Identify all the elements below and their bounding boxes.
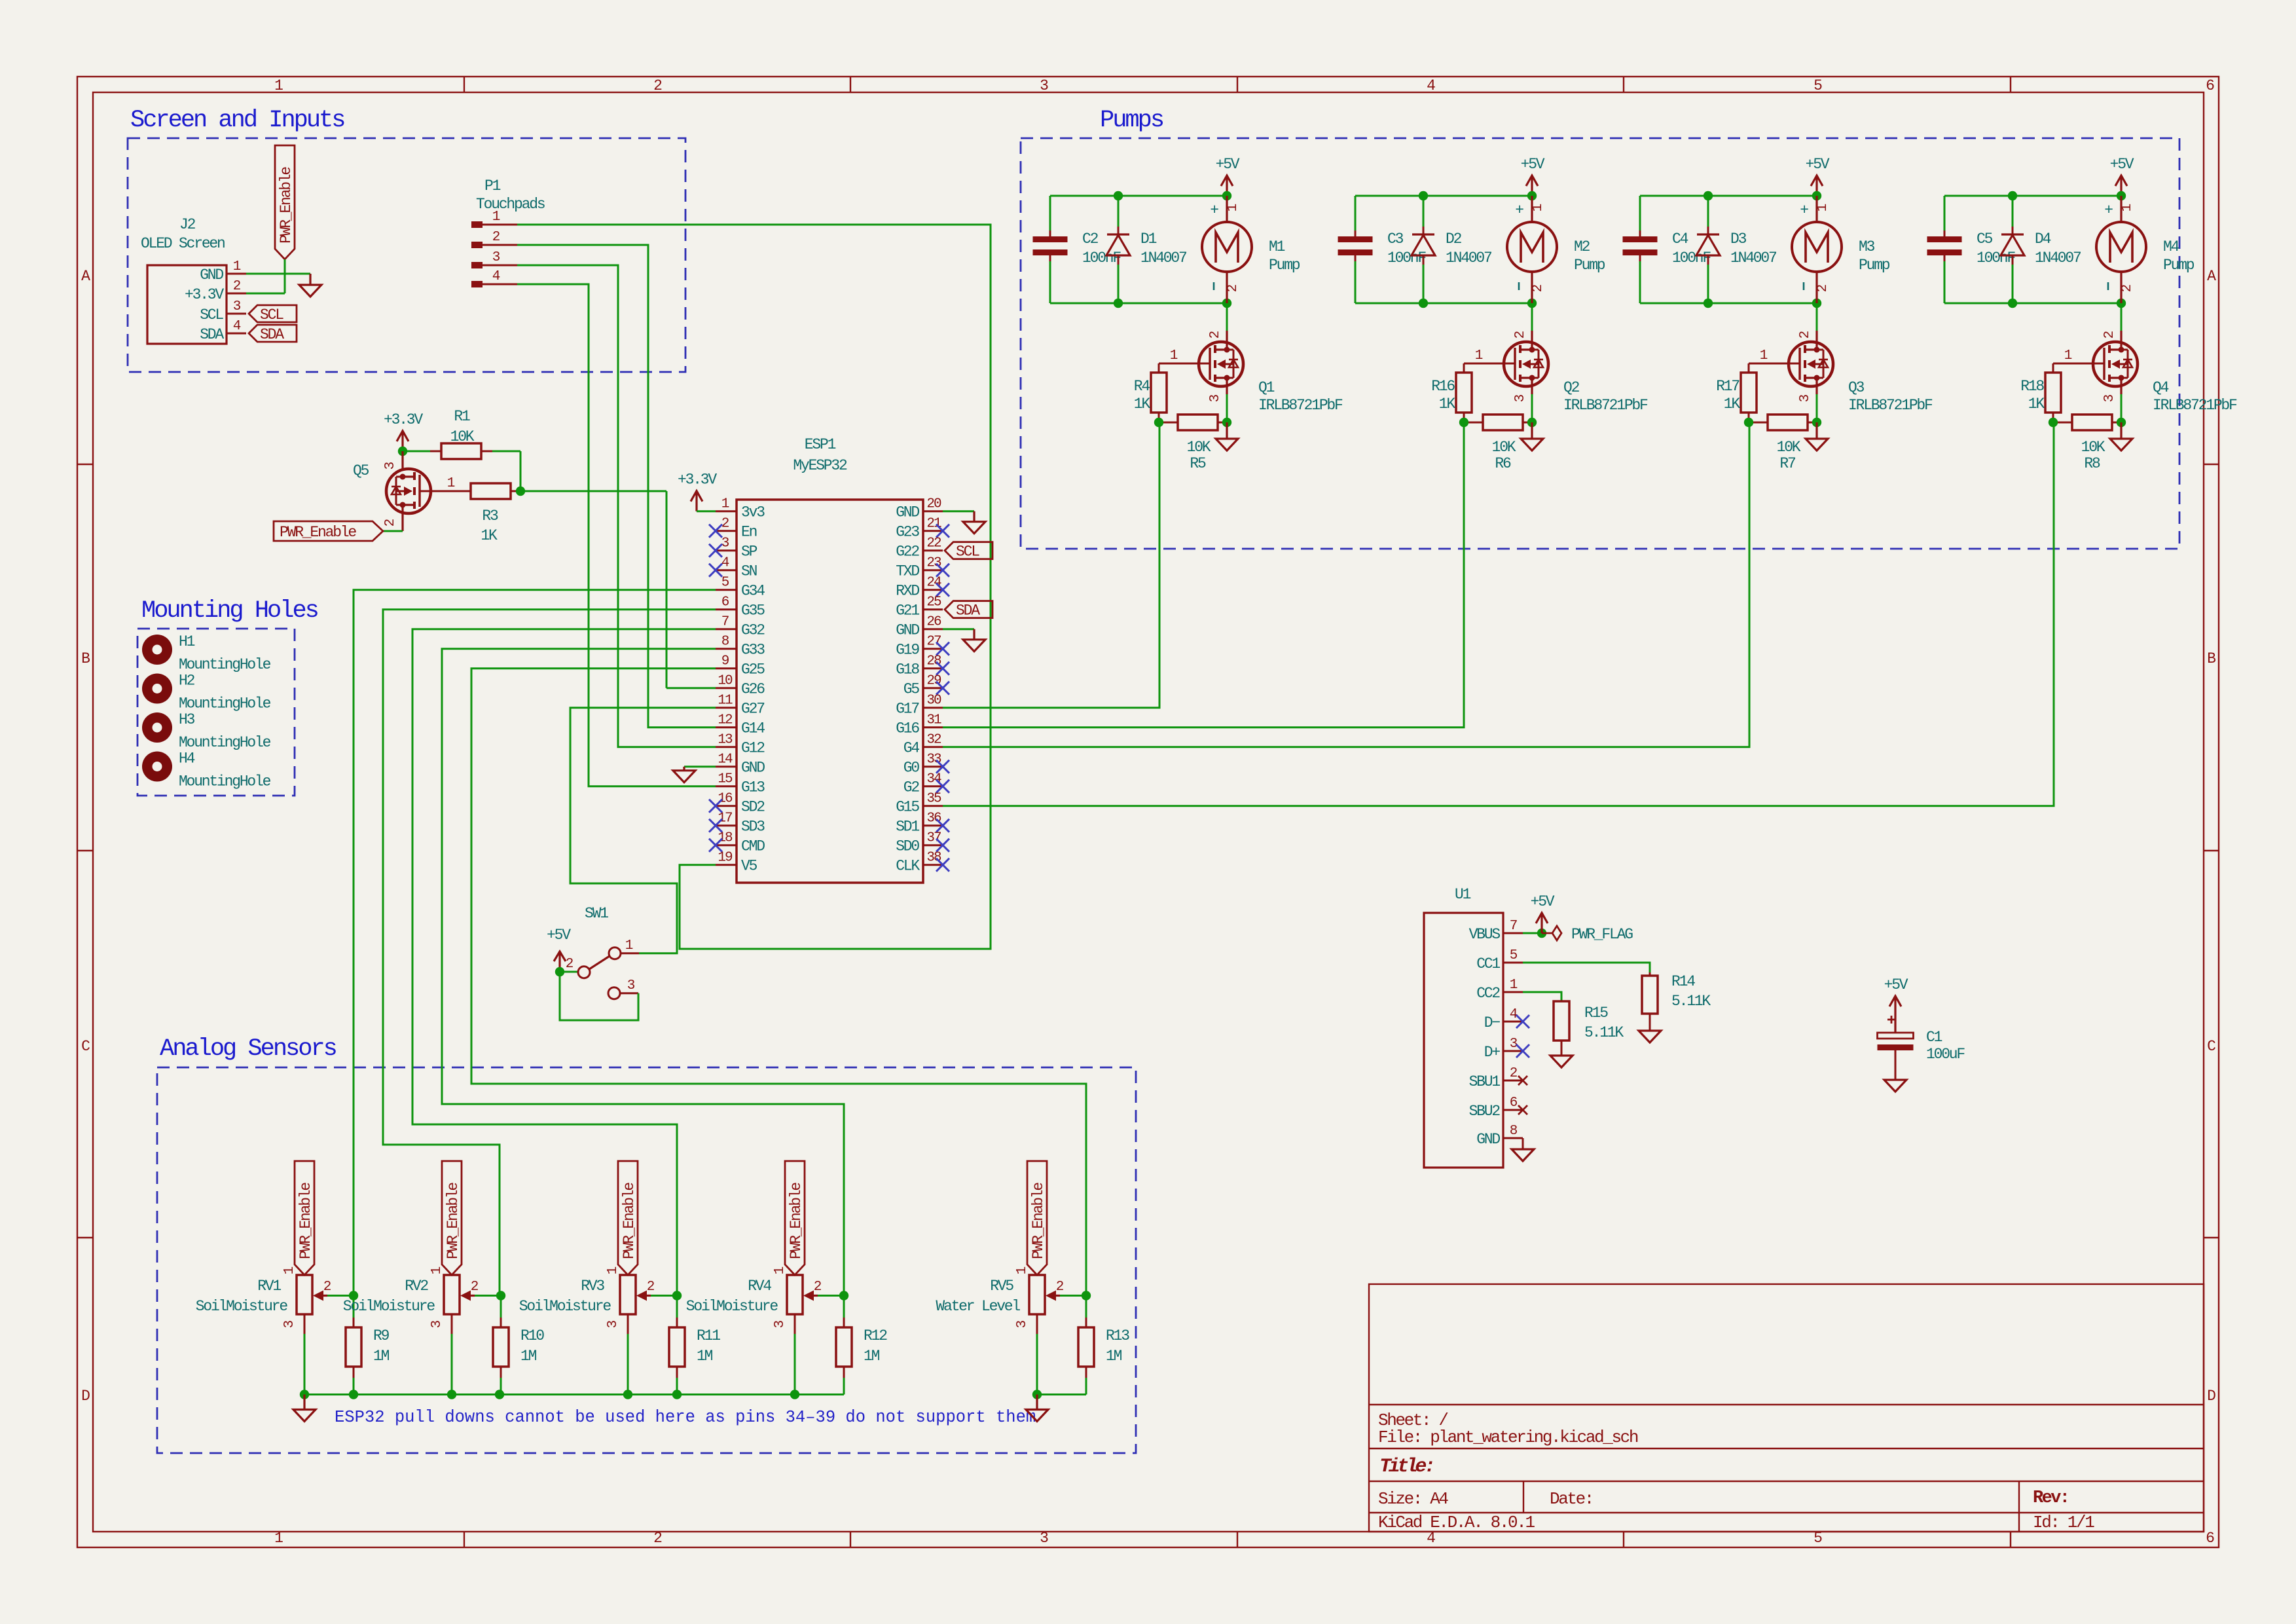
- svg-text:1: 1: [2120, 204, 2135, 212]
- svg-text:SD1: SD1: [896, 819, 919, 836]
- svg-text:2: 2: [1510, 1066, 1518, 1081]
- svg-text:9: 9: [721, 654, 729, 669]
- svg-text:G22: G22: [896, 544, 919, 561]
- svg-text:B: B: [81, 650, 90, 667]
- svg-text:C5: C5: [1977, 231, 1993, 248]
- svg-text:29: 29: [926, 674, 941, 689]
- svg-text:SoilMoisture: SoilMoisture: [196, 1298, 288, 1315]
- svg-text:2: 2: [1056, 1280, 1064, 1295]
- svg-text:21: 21: [926, 517, 941, 532]
- svg-text:SDA: SDA: [260, 326, 284, 343]
- svg-text:MountingHole: MountingHole: [179, 656, 271, 673]
- svg-text:SW1: SW1: [585, 905, 608, 922]
- svg-text:4: 4: [1427, 77, 1435, 94]
- svg-text:R5: R5: [1190, 455, 1206, 472]
- svg-text:2: 2: [1798, 331, 1813, 339]
- svg-text:D−: D−: [1484, 1014, 1501, 1031]
- svg-text:Pump: Pump: [1269, 257, 1300, 274]
- svg-text:Mounting Holes: Mounting Holes: [141, 597, 318, 625]
- svg-text:G15: G15: [896, 799, 919, 816]
- svg-text:1: 1: [1170, 348, 1178, 363]
- svg-text:11: 11: [718, 693, 733, 709]
- svg-text:1N4007: 1N4007: [1730, 249, 1776, 267]
- svg-text:15: 15: [718, 772, 733, 787]
- svg-text:10K: 10K: [1777, 439, 1801, 456]
- svg-text:+5V: +5V: [547, 927, 571, 944]
- svg-text:Analog Sensors: Analog Sensors: [160, 1035, 337, 1063]
- svg-text:6: 6: [2206, 77, 2214, 94]
- svg-text:1N4007: 1N4007: [2035, 249, 2081, 267]
- svg-text:SCL: SCL: [200, 306, 223, 323]
- svg-text:1: 1: [274, 1530, 283, 1547]
- svg-text:H3: H3: [179, 711, 195, 728]
- svg-text:SN: SN: [741, 563, 757, 580]
- svg-text:GND: GND: [896, 622, 919, 639]
- svg-text:+5V: +5V: [1521, 156, 1545, 173]
- svg-text:G2: G2: [903, 779, 920, 796]
- svg-text:23: 23: [926, 556, 941, 571]
- svg-text:+: +: [2104, 202, 2113, 219]
- svg-text:2: 2: [653, 77, 662, 94]
- svg-text:CC1: CC1: [1476, 955, 1500, 972]
- svg-text:SBU2: SBU2: [1469, 1103, 1501, 1120]
- svg-text:1: 1: [1015, 1266, 1030, 1274]
- svg-text:C3: C3: [1387, 231, 1404, 248]
- svg-text:19: 19: [718, 851, 733, 866]
- svg-text:6: 6: [721, 595, 729, 610]
- svg-text:5.11K: 5.11K: [1671, 993, 1711, 1010]
- svg-text:G18: G18: [896, 661, 919, 678]
- svg-text:SD3: SD3: [741, 819, 765, 836]
- svg-text:B: B: [2207, 650, 2215, 667]
- svg-text:7: 7: [721, 615, 729, 630]
- svg-text:GND: GND: [1476, 1131, 1500, 1148]
- svg-text:1K: 1K: [1134, 396, 1151, 413]
- svg-text:+: +: [1800, 202, 1808, 219]
- svg-text:+5V: +5V: [1806, 156, 1830, 173]
- svg-text:MyESP32: MyESP32: [793, 457, 847, 474]
- svg-text:2: 2: [653, 1530, 662, 1547]
- svg-text:1M: 1M: [697, 1348, 713, 1365]
- svg-text:G21: G21: [896, 602, 919, 619]
- svg-text:SoilMoisture: SoilMoisture: [686, 1298, 778, 1315]
- svg-text:R9: R9: [373, 1327, 390, 1344]
- svg-text:SD0: SD0: [896, 838, 919, 855]
- svg-text:1: 1: [429, 1266, 445, 1274]
- svg-text:G4: G4: [903, 740, 920, 757]
- svg-text:GND: GND: [896, 504, 919, 521]
- svg-text:MountingHole: MountingHole: [179, 695, 271, 712]
- svg-text:G0: G0: [903, 760, 920, 777]
- svg-text:35: 35: [926, 792, 941, 807]
- svg-text:GND: GND: [200, 267, 223, 284]
- svg-text:2: 2: [1815, 284, 1831, 292]
- svg-text:38: 38: [926, 851, 941, 866]
- svg-text:Q1: Q1: [1258, 379, 1275, 396]
- svg-text:2: 2: [566, 957, 574, 972]
- svg-text:100nF: 100nF: [1082, 249, 1121, 267]
- svg-text:D3: D3: [1730, 231, 1747, 248]
- svg-text:1: 1: [1226, 204, 1241, 212]
- svg-text:Q5: Q5: [353, 462, 369, 479]
- svg-text:C: C: [2207, 1038, 2215, 1055]
- svg-text:4: 4: [1510, 1007, 1518, 1022]
- svg-text:Water Level: Water Level: [936, 1298, 1020, 1315]
- svg-text:R1: R1: [454, 408, 470, 425]
- svg-text:28: 28: [926, 654, 941, 669]
- svg-text:1: 1: [1510, 978, 1518, 993]
- svg-text:2: 2: [471, 1280, 479, 1295]
- svg-text:3: 3: [627, 978, 635, 993]
- svg-text:SoilMoisture: SoilMoisture: [343, 1298, 435, 1315]
- svg-text:12: 12: [718, 713, 733, 728]
- svg-text:Q2: Q2: [1563, 379, 1580, 396]
- svg-text:SP: SP: [741, 544, 757, 561]
- svg-text:3: 3: [233, 299, 241, 314]
- svg-text:IRLB8721PbF: IRLB8721PbF: [2153, 397, 2237, 414]
- svg-text:R8: R8: [2084, 455, 2100, 472]
- svg-text:1: 1: [1531, 204, 1546, 212]
- svg-text:1: 1: [1475, 348, 1483, 363]
- svg-text:Size: A4: Size: A4: [1378, 1489, 1448, 1509]
- svg-text:G35: G35: [741, 602, 765, 619]
- svg-text:SDA: SDA: [956, 602, 980, 619]
- svg-text:6: 6: [1510, 1096, 1518, 1111]
- svg-text:G17: G17: [896, 701, 919, 718]
- svg-text:16: 16: [718, 792, 733, 807]
- svg-text:2: 2: [2120, 284, 2135, 292]
- svg-text:14: 14: [718, 752, 733, 767]
- svg-text:17: 17: [718, 811, 732, 826]
- svg-text:R12: R12: [864, 1327, 887, 1344]
- svg-text:D: D: [2207, 1388, 2215, 1405]
- svg-text:+3.3V: +3.3V: [185, 286, 224, 303]
- svg-text:Title:: Title:: [1379, 1456, 1433, 1478]
- svg-text:D: D: [81, 1388, 90, 1405]
- svg-text:2: 2: [1226, 284, 1241, 292]
- svg-text:+5V: +5V: [2110, 156, 2134, 173]
- svg-text:7: 7: [1510, 919, 1517, 934]
- svg-text:R6: R6: [1495, 455, 1511, 472]
- svg-text:3: 3: [773, 1320, 788, 1328]
- svg-text:32: 32: [926, 733, 941, 748]
- svg-text:3: 3: [1015, 1320, 1030, 1328]
- svg-text:M2: M2: [1574, 238, 1590, 255]
- svg-text:G14: G14: [741, 720, 765, 737]
- svg-text:3: 3: [429, 1320, 445, 1328]
- svg-text:26: 26: [926, 615, 941, 630]
- svg-text:3: 3: [721, 536, 729, 551]
- svg-text:3: 3: [1208, 394, 1223, 402]
- svg-text:3: 3: [282, 1320, 297, 1328]
- svg-text:PWR_Enable: PWR_Enable: [280, 524, 356, 541]
- svg-text:1K: 1K: [1724, 396, 1741, 413]
- svg-text:RV4: RV4: [748, 1278, 771, 1295]
- svg-text:1: 1: [1815, 204, 1831, 212]
- svg-text:H1: H1: [179, 633, 195, 650]
- svg-text:KiCad E.D.A. 8.0.1: KiCad E.D.A. 8.0.1: [1378, 1513, 1535, 1532]
- svg-text:18: 18: [718, 831, 733, 846]
- svg-text:MountingHole: MountingHole: [179, 773, 271, 790]
- svg-text:2: 2: [323, 1280, 331, 1295]
- svg-text:1: 1: [625, 938, 633, 953]
- svg-text:RV2: RV2: [405, 1278, 428, 1295]
- svg-text:2: 2: [814, 1280, 822, 1295]
- svg-text:PWR_Enable: PWR_Enable: [297, 1183, 314, 1259]
- svg-text:G34: G34: [741, 583, 765, 600]
- svg-text:30: 30: [926, 693, 941, 709]
- svg-text:3: 3: [2102, 394, 2117, 402]
- svg-text:C1: C1: [1926, 1029, 1942, 1046]
- svg-text:Date:: Date:: [1550, 1489, 1593, 1509]
- svg-text:R3: R3: [482, 507, 498, 525]
- svg-text:PWR_Enable: PWR_Enable: [1030, 1183, 1047, 1259]
- svg-text:1K: 1K: [2028, 396, 2045, 413]
- svg-text:+5V: +5V: [1216, 156, 1240, 173]
- svg-text:3: 3: [1040, 1530, 1048, 1547]
- svg-text:3v3: 3v3: [741, 504, 765, 521]
- svg-text:2: 2: [647, 1280, 655, 1295]
- svg-text:37: 37: [926, 831, 941, 846]
- svg-text:M4: M4: [2163, 238, 2179, 255]
- svg-text:+3.3V: +3.3V: [384, 411, 423, 428]
- svg-text:Rev:: Rev:: [2033, 1488, 2068, 1508]
- svg-text:1M: 1M: [373, 1348, 390, 1365]
- svg-text:4: 4: [233, 319, 241, 334]
- svg-text:RV3: RV3: [581, 1278, 604, 1295]
- svg-text:D2: D2: [1446, 231, 1462, 248]
- svg-text:1: 1: [282, 1266, 297, 1274]
- svg-text:1K: 1K: [481, 527, 498, 544]
- svg-text:1M: 1M: [1106, 1348, 1122, 1365]
- svg-text:OLED Screen: OLED Screen: [141, 235, 225, 252]
- svg-text:SCL: SCL: [260, 306, 283, 323]
- svg-text:1N4007: 1N4007: [1140, 249, 1186, 267]
- svg-text:SBU1: SBU1: [1469, 1073, 1501, 1090]
- svg-text:10K: 10K: [1492, 439, 1516, 456]
- svg-text:1: 1: [721, 497, 729, 512]
- svg-text:IRLB8721PbF: IRLB8721PbF: [1563, 397, 1648, 414]
- svg-text:1N4007: 1N4007: [1446, 249, 1491, 267]
- svg-text:G16: G16: [896, 720, 919, 737]
- svg-text:+: +: [1210, 202, 1218, 219]
- svg-text:H2: H2: [179, 673, 195, 690]
- svg-text:1M: 1M: [864, 1348, 880, 1365]
- svg-text:PWR_FLAG: PWR_FLAG: [1571, 926, 1633, 943]
- svg-text:G5: G5: [903, 681, 920, 698]
- svg-text:R13: R13: [1106, 1327, 1129, 1344]
- svg-text:2: 2: [721, 517, 729, 532]
- svg-text:IRLB8721PbF: IRLB8721PbF: [1848, 397, 1933, 414]
- svg-text:1: 1: [773, 1266, 788, 1274]
- svg-text:10K: 10K: [450, 428, 475, 445]
- svg-text:3: 3: [1510, 1037, 1518, 1052]
- svg-text:G12: G12: [741, 740, 765, 757]
- svg-text:1: 1: [606, 1266, 621, 1274]
- svg-text:5: 5: [1813, 77, 1822, 94]
- svg-text:10: 10: [718, 674, 733, 689]
- svg-text:R11: R11: [697, 1327, 720, 1344]
- svg-text:G13: G13: [741, 779, 765, 796]
- svg-text:100uF: 100uF: [1926, 1046, 1965, 1063]
- svg-text:Pump: Pump: [2163, 257, 2195, 274]
- svg-text:U1: U1: [1455, 886, 1471, 903]
- svg-text:4: 4: [492, 269, 500, 284]
- svg-text:D4: D4: [2035, 231, 2051, 248]
- svg-text:SCL: SCL: [956, 544, 979, 561]
- svg-text:G19: G19: [896, 642, 919, 659]
- svg-text:2: 2: [2102, 331, 2117, 339]
- svg-text:Screen and Inputs: Screen and Inputs: [130, 107, 344, 134]
- svg-text:RV5: RV5: [990, 1278, 1013, 1295]
- svg-text:D1: D1: [1140, 231, 1157, 248]
- svg-text:8: 8: [1510, 1124, 1518, 1139]
- svg-text:En: En: [741, 524, 757, 541]
- svg-text:2: 2: [1208, 331, 1223, 339]
- svg-text:MountingHole: MountingHole: [179, 734, 271, 751]
- svg-text:CC2: CC2: [1476, 985, 1500, 1002]
- svg-text:R18: R18: [2020, 378, 2044, 395]
- svg-text:1K: 1K: [1439, 396, 1456, 413]
- svg-text:+: +: [1515, 202, 1523, 219]
- svg-text:1: 1: [233, 259, 241, 274]
- svg-text:+3.3V: +3.3V: [678, 471, 717, 489]
- svg-text:+5V: +5V: [1531, 893, 1555, 910]
- svg-text:2: 2: [1513, 331, 1528, 339]
- svg-text:1: 1: [274, 77, 283, 94]
- svg-text:Q3: Q3: [1848, 379, 1865, 396]
- svg-text:SD2: SD2: [741, 799, 765, 816]
- svg-text:ESP1: ESP1: [805, 436, 836, 453]
- svg-text:5: 5: [721, 576, 729, 591]
- svg-text:R4: R4: [1134, 378, 1150, 395]
- svg-text:File: plant_watering.kicad_sch: File: plant_watering.kicad_sch: [1378, 1428, 1638, 1447]
- svg-text:Pump: Pump: [1859, 257, 1890, 274]
- svg-text:2: 2: [383, 519, 398, 526]
- svg-text:Pump: Pump: [1574, 257, 1605, 274]
- svg-text:SDA: SDA: [200, 326, 224, 343]
- svg-text:2: 2: [233, 279, 241, 294]
- svg-text:IRLB8721PbF: IRLB8721PbF: [1258, 397, 1343, 414]
- svg-text:5: 5: [1510, 948, 1518, 963]
- svg-text:1M: 1M: [520, 1348, 537, 1365]
- svg-text:3: 3: [1513, 394, 1528, 402]
- svg-text:M1: M1: [1269, 238, 1285, 255]
- svg-text:C2: C2: [1082, 231, 1099, 248]
- svg-text:CMD: CMD: [741, 838, 765, 855]
- svg-text:3: 3: [1040, 77, 1048, 94]
- svg-text:1: 1: [1760, 348, 1768, 363]
- svg-text:R17: R17: [1716, 378, 1739, 395]
- svg-text:D+: D+: [1484, 1044, 1501, 1061]
- svg-text:PWR_Enable: PWR_Enable: [445, 1183, 462, 1259]
- svg-text:100nF: 100nF: [1387, 249, 1426, 267]
- svg-text:CLK: CLK: [896, 858, 920, 875]
- svg-text:ESP32 pull downs cannot be use: ESP32 pull downs cannot be used here as …: [335, 1408, 1036, 1427]
- svg-text:R15: R15: [1584, 1005, 1608, 1022]
- svg-text:1: 1: [2064, 348, 2072, 363]
- svg-text:1: 1: [492, 210, 500, 225]
- svg-text:SoilMoisture: SoilMoisture: [519, 1298, 611, 1315]
- svg-text:M3: M3: [1859, 238, 1875, 255]
- svg-text:+5V: +5V: [1884, 976, 1908, 993]
- svg-text:34: 34: [926, 772, 941, 787]
- svg-text:25: 25: [926, 595, 941, 610]
- svg-text:36: 36: [926, 811, 941, 826]
- svg-text:V5: V5: [741, 858, 757, 875]
- svg-text:G33: G33: [741, 642, 765, 659]
- svg-text:Q4: Q4: [2153, 379, 2169, 396]
- svg-text:3: 3: [606, 1320, 621, 1328]
- svg-text:4: 4: [721, 556, 729, 571]
- svg-text:10K: 10K: [2081, 439, 2105, 456]
- svg-text:G26: G26: [741, 681, 765, 698]
- svg-text:G32: G32: [741, 622, 765, 639]
- svg-text:33: 33: [926, 752, 941, 767]
- svg-text:PWR_Enable: PWR_Enable: [278, 167, 295, 244]
- svg-text:PWR_Enable: PWR_Enable: [621, 1183, 638, 1259]
- svg-text:RV1: RV1: [257, 1278, 281, 1295]
- svg-text:31: 31: [926, 713, 941, 728]
- svg-text:100nF: 100nF: [1977, 249, 2015, 267]
- svg-text:2: 2: [492, 230, 500, 245]
- svg-text:3: 3: [383, 462, 398, 470]
- svg-text:100nF: 100nF: [1672, 249, 1711, 267]
- svg-text:R7: R7: [1779, 455, 1795, 472]
- svg-text:R10: R10: [520, 1327, 544, 1344]
- svg-text:VBUS: VBUS: [1469, 926, 1501, 943]
- svg-text:6: 6: [2206, 1530, 2214, 1547]
- svg-text:2: 2: [1531, 284, 1546, 292]
- svg-text:27: 27: [926, 635, 941, 650]
- svg-text:24: 24: [926, 576, 941, 591]
- svg-text:RXD: RXD: [896, 583, 919, 600]
- svg-text:J2: J2: [179, 216, 196, 233]
- svg-text:3: 3: [492, 250, 500, 265]
- svg-text:TXD: TXD: [896, 563, 919, 580]
- svg-text:P1: P1: [484, 177, 501, 194]
- svg-text:R14: R14: [1671, 973, 1695, 990]
- svg-text:R16: R16: [1431, 378, 1455, 395]
- svg-text:G23: G23: [896, 524, 919, 541]
- svg-text:3: 3: [1798, 394, 1813, 402]
- svg-text:H4: H4: [179, 750, 195, 767]
- svg-text:Pumps: Pumps: [1100, 107, 1163, 134]
- svg-text:C4: C4: [1672, 231, 1688, 248]
- svg-text:1: 1: [447, 476, 455, 491]
- svg-text:22: 22: [926, 536, 941, 551]
- svg-text:G27: G27: [741, 701, 764, 718]
- svg-text:8: 8: [721, 635, 729, 650]
- svg-text:13: 13: [718, 733, 733, 748]
- svg-text:Touchpads: Touchpads: [476, 196, 545, 213]
- svg-text:20: 20: [926, 497, 941, 512]
- svg-text:Id: 1/1: Id: 1/1: [2033, 1513, 2094, 1532]
- svg-text:10K: 10K: [1187, 439, 1211, 456]
- svg-text:PWR_Enable: PWR_Enable: [788, 1183, 805, 1259]
- svg-text:C: C: [81, 1038, 90, 1055]
- svg-text:5.11K: 5.11K: [1584, 1024, 1624, 1041]
- svg-text:G25: G25: [741, 661, 765, 678]
- svg-text:GND: GND: [741, 760, 765, 777]
